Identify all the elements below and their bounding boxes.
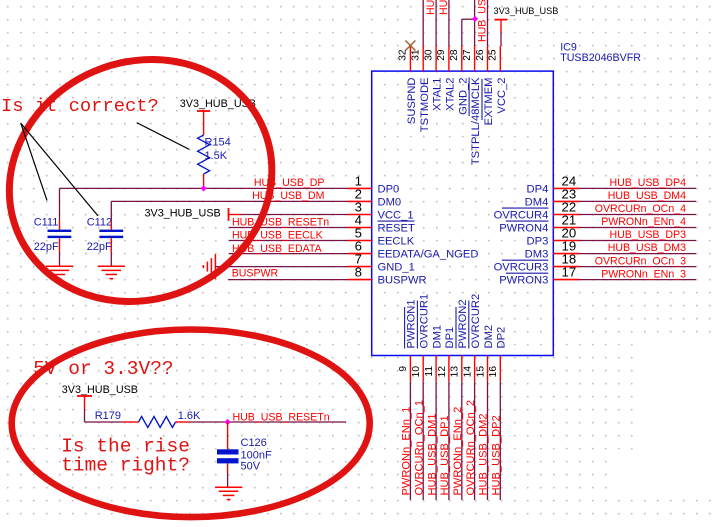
junction R154/HUB_USB_DP	[201, 185, 207, 191]
svg-text:time right?: time right?	[61, 455, 190, 477]
wire net PWRONn_ENn_2	[461, 381, 463, 500]
capacitor C112	[110, 221, 112, 230]
svg-text:32: 32	[398, 49, 409, 61]
svg-text:3V3_HUB_USB: 3V3_HUB_USB	[62, 384, 138, 396]
svg-text:DM1: DM1	[431, 325, 443, 349]
wire net HUB_USB_DP2	[499, 381, 501, 500]
pin 6 stub	[348, 253, 372, 255]
svg-text:8: 8	[355, 265, 362, 280]
wire pin30 up	[435, 0, 437, 46]
overbar 48MCLK (active low)	[468, 78, 470, 117]
svg-text:DM0: DM0	[378, 196, 402, 208]
ground symbol (C126)	[215, 486, 242, 488]
wire net PWRONn_ENn_1	[409, 381, 411, 500]
svg-text:OVRCUR4: OVRCUR4	[494, 210, 549, 222]
svg-text:13: 13	[450, 366, 461, 378]
pin 13 stub	[461, 356, 463, 382]
pin 24 stub	[553, 187, 579, 189]
svg-text:Is it correct?: Is it correct?	[1, 95, 159, 117]
svg-text:27: 27	[462, 49, 473, 61]
pin 27 stub	[474, 46, 476, 71]
pin 1 stub	[348, 187, 372, 189]
svg-text:HUB_USB_DM: HUB_USB_DM	[252, 190, 324, 202]
svg-text:TSTPLL/48MCLK: TSTPLL/48MCLK	[470, 77, 482, 165]
svg-text:HUB_USB_48MCLK: HUB_USB_48MCLK	[476, 0, 488, 42]
svg-text:DP0: DP0	[378, 183, 400, 195]
pin 28 stub	[461, 46, 463, 71]
svg-text:PWRONn_ENn_3: PWRONn_ENn_3	[601, 268, 686, 280]
pin 19 stub	[553, 253, 579, 255]
svg-text:DP4: DP4	[527, 183, 549, 195]
svg-text:HUB_USB_DP4: HUB_USB_DP4	[609, 177, 686, 189]
pin 31 stub	[422, 46, 424, 71]
wire net OVRCURn_OCn_2	[474, 381, 476, 500]
svg-text:HUB_USB_TSTMOD: HUB_USB_TSTMOD	[438, 0, 450, 15]
svg-text:OVRCURn_OCn_4: OVRCURn_OCn_4	[595, 203, 686, 215]
svg-text:C112: C112	[87, 217, 112, 229]
svg-text:BUSPWR: BUSPWR	[378, 275, 427, 287]
pin 14 stub	[474, 356, 476, 382]
svg-text:EEDATA/GA_NGED: EEDATA/GA_NGED	[378, 249, 479, 261]
svg-text:HUB_USB_RESETn: HUB_USB_RESETn	[233, 411, 330, 423]
wire C126 to ground	[227, 474, 229, 488]
svg-text:GND_1: GND_1	[378, 262, 415, 274]
svg-text:VCC_1: VCC_1	[378, 210, 414, 222]
wire pin26 up	[487, 0, 489, 46]
svg-text:HUB_USB_RESETn: HUB_USB_RESETn	[232, 217, 329, 229]
pin 10 stub	[422, 356, 424, 382]
svg-text:SUSPND: SUSPND	[406, 78, 418, 125]
svg-text:1.5K: 1.5K	[205, 150, 228, 162]
wire HUB_USB_DM (pin2)	[111, 200, 348, 202]
svg-text:HUB_USB_DP3: HUB_USB_DP3	[609, 229, 686, 241]
svg-text:10: 10	[411, 366, 422, 378]
wire VCC_1 (pin3)	[241, 214, 348, 216]
svg-text:1.6K: 1.6K	[178, 410, 201, 422]
pin 5 stub	[348, 240, 372, 242]
svg-text:XTAL2: XTAL2	[444, 78, 456, 111]
svg-text:OVRCURn_OCn_1: OVRCURn_OCn_1	[413, 400, 425, 496]
pin 22 stub	[553, 214, 579, 216]
svg-text:30: 30	[423, 49, 434, 61]
pin 32 stub	[409, 46, 411, 71]
svg-text:OVRCUR1: OVRCUR1	[419, 294, 431, 349]
svg-text:16: 16	[488, 366, 499, 378]
svg-text:15: 15	[475, 366, 486, 378]
svg-text:DM4: DM4	[525, 196, 549, 208]
overbar OVRCUR3 (active low)	[502, 259, 549, 261]
resistor R154 zigzag	[198, 135, 210, 174]
pin 18 stub	[553, 266, 579, 268]
annotation ellipse 1	[0, 19, 310, 342]
svg-text:HUB_USB_DM1: HUB_USB_DM1	[426, 414, 438, 496]
svg-text:OVRCUR3: OVRCUR3	[494, 262, 549, 274]
wire pin25	[500, 32, 502, 46]
wire corner to C112	[110, 201, 112, 221]
wire pin28 elbow to pin27	[461, 19, 463, 46]
svg-text:17: 17	[562, 265, 577, 280]
pin 9 stub	[409, 356, 411, 382]
wire pin27 up	[474, 0, 476, 46]
svg-text:EECLK: EECLK	[378, 236, 415, 248]
wire HUB_USB_RESETn (bottom)	[228, 421, 346, 423]
wire HUB_USB_DP (pin1)	[60, 187, 349, 189]
svg-text:HUB_USB_DM2: HUB_USB_DM2	[478, 414, 490, 496]
overbar EXTMEM (active low)	[481, 79, 483, 120]
svg-text:31: 31	[411, 49, 422, 61]
pin 23 stub	[553, 200, 579, 202]
svg-text:R179: R179	[95, 410, 121, 422]
svg-text:DP1: DP1	[444, 327, 456, 349]
pin 4 stub	[348, 227, 372, 229]
wire net HUB_USB_DM2	[487, 381, 489, 500]
wire net HUB_USB_DM1	[435, 381, 437, 500]
svg-text:OVRCURn_OCn_2: OVRCURn_OCn_2	[465, 400, 477, 496]
svg-text:BUSPWR: BUSPWR	[232, 268, 279, 280]
annotation ellipse 2	[12, 330, 370, 518]
pin 29 stub	[448, 46, 450, 71]
wire net OVRCURn_OCn_3	[579, 266, 696, 268]
svg-text:29: 29	[436, 49, 447, 61]
svg-text:HUB_USB_DP1: HUB_USB_DP1	[439, 415, 451, 495]
wire HUB_USB_EDATA (pin6)	[229, 253, 348, 255]
wire BUSPWR (pin8)	[228, 279, 348, 281]
pin 21 stub	[553, 227, 579, 229]
svg-text:RESET: RESET	[378, 223, 415, 235]
power symbol 3V3_HUB_USB (R154)	[197, 110, 210, 112]
wire HUB_USB_RESETn (pin4)	[229, 227, 348, 229]
overbar PWRON4 (active low)	[506, 220, 549, 222]
pin 3 stub	[348, 214, 372, 216]
svg-text:3V3_HUB_USB: 3V3_HUB_USB	[145, 208, 221, 220]
pin 2 stub	[348, 200, 372, 202]
svg-text:HUB_USB_DP2: HUB_USB_DP2	[491, 415, 503, 495]
power symbol 3V3_HUB_USB (pin3, sideways)	[228, 208, 230, 221]
wire net OVRCURn_OCn_4	[579, 214, 696, 216]
junction pin27/pin28	[472, 16, 478, 22]
svg-text:HUB_USB_DP: HUB_USB_DP	[254, 177, 325, 189]
wire net HUB_USB_DP4	[579, 187, 696, 189]
svg-text:DP3: DP3	[527, 236, 549, 248]
wire net HUB_USB_DP3	[579, 240, 696, 242]
no-connect X on pin 32	[405, 41, 415, 51]
wire net PWRONn_ENn_4	[579, 227, 696, 229]
svg-text:C111: C111	[34, 217, 59, 229]
svg-text:DP2: DP2	[496, 327, 508, 349]
svg-text:R154: R154	[205, 137, 231, 149]
svg-text:OVRCURn_OCn_3: OVRCURn_OCn_3	[595, 255, 686, 267]
wire C112 to ground	[110, 252, 112, 266]
svg-text:GND_2: GND_2	[457, 78, 469, 115]
overbar PWRON2 (active low)	[455, 307, 457, 349]
overbar PWRON3 (active low)	[506, 272, 549, 274]
svg-text:12: 12	[437, 366, 448, 378]
svg-text:PWRONn_ENn_2: PWRONn_ENn_2	[452, 407, 464, 496]
svg-text:PWRON4: PWRON4	[499, 223, 548, 235]
pin 25 stub	[499, 46, 501, 71]
wire corner to C111	[59, 188, 61, 221]
resistor R179	[124, 421, 139, 423]
svg-text:28: 28	[449, 49, 460, 61]
pin 20 stub	[553, 240, 579, 242]
svg-text:HUB_USB_DM3: HUB_USB_DM3	[608, 242, 686, 254]
pin 16 stub	[499, 356, 501, 382]
svg-text:9: 9	[398, 366, 409, 372]
svg-text:TUSB2046BVFR: TUSB2046BVFR	[560, 52, 641, 64]
pin 15 stub	[487, 356, 489, 382]
wire from power to R179	[84, 409, 86, 422]
svg-text:XTAL1: XTAL1	[432, 78, 444, 111]
pin 7 stub	[348, 266, 372, 268]
overbar OVRCUR1 (active low)	[416, 301, 418, 349]
wire net PWRONn_ENn_3	[579, 279, 696, 281]
svg-text:C126: C126	[241, 437, 267, 449]
pin 26 stub	[487, 46, 489, 71]
overbar OVRCUR2 (active low)	[468, 301, 470, 349]
capacitor C126	[227, 422, 229, 449]
ground symbol (pin7 GND_1)	[214, 254, 216, 279]
svg-text:22pF: 22pF	[87, 241, 112, 253]
power symbol 3V3_HUB_USB (R179)	[77, 395, 92, 397]
wire net OVRCURn_OCn_1	[422, 381, 424, 500]
svg-text:11: 11	[424, 366, 435, 377]
svg-text:HUB_USB_DM4: HUB_USB_DM4	[608, 190, 686, 202]
pin 12 stub	[448, 356, 450, 382]
ground symbol (C111)	[46, 265, 73, 267]
pin 30 stub	[435, 46, 437, 71]
svg-text:DM3: DM3	[525, 249, 549, 261]
annotation pointer line 3	[137, 123, 190, 150]
wire GND_1 (pin7)	[215, 266, 348, 268]
svg-text:25: 25	[488, 49, 499, 61]
svg-text:PWRONn_ENn_1: PWRONn_ENn_1	[401, 407, 413, 496]
svg-text:3V3_HUB_USB: 3V3_HUB_USB	[494, 6, 559, 16]
svg-text:22pF: 22pF	[34, 241, 59, 253]
svg-text:PWRON3: PWRON3	[499, 275, 548, 287]
svg-text:PWRON2: PWRON2	[457, 299, 469, 348]
wire HUB_USB_EECLK (pin5)	[229, 240, 348, 242]
resistor R154 lead	[203, 174, 205, 188]
wire R179 to junction	[189, 421, 227, 423]
ground symbol (C112)	[98, 265, 125, 267]
svg-text:EXTMEM: EXTMEM	[483, 78, 495, 126]
power symbol 3V3_HUB_USB (pin25)	[495, 19, 508, 21]
overbar OVRCUR4 (active low)	[502, 207, 549, 209]
overbar PWRON1 (active low)	[404, 307, 406, 349]
junction R179/C126	[225, 419, 231, 425]
wire C111 to ground	[59, 252, 61, 266]
wire net HUB_USB_DM4	[579, 200, 696, 202]
overbar RESET (active low)	[378, 220, 415, 222]
svg-text:TSTMODE: TSTMODE	[419, 78, 431, 133]
svg-text:14: 14	[462, 366, 473, 378]
svg-text:VCC_2: VCC_2	[496, 78, 508, 114]
pin 11 stub	[435, 356, 437, 382]
op-amp: IC U-box IC9 TUSB2046BVFR body	[372, 71, 554, 355]
wire net HUB_USB_DM3	[579, 253, 696, 255]
wire net HUB_USB_DP1	[448, 381, 450, 500]
svg-text:50V: 50V	[241, 461, 261, 473]
pin 17 stub	[553, 279, 579, 281]
white area bottom right (no dots)	[634, 336, 712, 497]
capacitor C111	[59, 221, 61, 230]
svg-text:OVRCUR2: OVRCUR2	[470, 294, 482, 349]
pin 8 stub	[348, 279, 372, 281]
svg-text:26: 26	[475, 49, 486, 61]
svg-text:PWRONn_ENn_4: PWRONn_ENn_4	[601, 216, 686, 228]
annotation pointer line 2	[21, 123, 98, 216]
wire pin29 up	[448, 0, 450, 46]
annotation pointer line 1	[21, 123, 47, 200]
svg-text:5V or 3.3V??: 5V or 3.3V??	[33, 358, 173, 380]
wire pin31 up	[422, 0, 424, 46]
svg-text:DM2: DM2	[483, 325, 495, 349]
svg-text:HUB_USB_SUSPND: HUB_USB_SUSPND	[425, 0, 437, 15]
svg-text:PWRON1: PWRON1	[406, 299, 418, 348]
